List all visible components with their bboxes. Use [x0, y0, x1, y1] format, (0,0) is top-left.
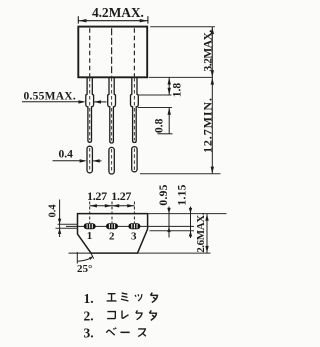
- svg-text:2.: 2.: [84, 309, 94, 324]
- 0.4 right tail: [93, 160, 102, 162]
- 0.4 left arrow: [80, 159, 87, 162]
- 0.8 up arrow below shoulder-bottom line: [168, 108, 171, 115]
- svg-text:3.: 3.: [84, 326, 94, 341]
- 1.8 top arrow: [168, 78, 171, 85]
- svg-text:3: 3: [131, 230, 137, 242]
- legend line 1 katakana エミッタ (drawn as paths): [107, 293, 158, 303]
- 1.15 down arrow at top edge: [189, 208, 192, 214]
- lead 3 (right) upper portion with shoulder bulge: [131, 77, 139, 142]
- 2.6MAX bottom arrow: [205, 246, 208, 253]
- 1.27 arrows: [90, 204, 97, 207]
- svg-text:12.7MIN.: 12.7MIN.: [201, 97, 215, 153]
- 25 degree chamfer extension: [91, 253, 94, 259]
- lead 2 (middle) upper portion with shoulder bulge: [108, 77, 116, 143]
- hidden lead line right (dashed): [133, 28, 135, 76]
- 0.4 leader line: [53, 160, 85, 162]
- lead 3 centerline dashes: [133, 78, 135, 140]
- svg-text:0.95: 0.95: [158, 184, 170, 205]
- 12.7MIN top arrow: [211, 78, 214, 85]
- svg-text:4.2MAX.: 4.2MAX.: [92, 5, 144, 20]
- dimension 4.2MAX line: [78, 20, 148, 22]
- extension line at shoulder top (y=95): [138, 94, 172, 96]
- glyph ス: [138, 329, 146, 337]
- pin 1 extension dashed up: [89, 202, 91, 224]
- 1.15 up arrow at pin bottom line: [189, 231, 192, 237]
- svg-text:0.4: 0.4: [59, 148, 74, 160]
- lead 3 lower centerline: [133, 148, 135, 170]
- glyph ッ (small tsu): [135, 294, 142, 301]
- bottom edge extension left (25 deg reference): [69, 252, 92, 254]
- svg-text:25°: 25°: [77, 263, 92, 275]
- 0.95 down arrow at top edge: [167, 208, 170, 214]
- package body front view: [78, 27, 147, 78]
- glyph エ: [107, 294, 117, 301]
- hidden lead line middle (dashed): [111, 28, 113, 76]
- pin 1 pad: [84, 223, 96, 229]
- svg-text:0.55MAX.: 0.55MAX.: [24, 90, 76, 102]
- dimension 1.8 line: [168, 77, 170, 95]
- glyph タ: [149, 310, 156, 320]
- 0.55MAX left arrow: [78, 100, 85, 103]
- lead 1 centerline dashes: [89, 78, 91, 140]
- 3.2MAX bottom arrow: [211, 70, 214, 77]
- glyph ミ: [121, 293, 128, 301]
- svg-text:0.4: 0.4: [48, 204, 59, 218]
- glyph タ: [150, 293, 157, 303]
- 25 degree reference vertical line: [76, 252, 78, 264]
- glyph ベ: [106, 328, 116, 335]
- glyph ー: [120, 331, 129, 333]
- body bottom extension line to right: [149, 76, 213, 78]
- 1.27 dimension line: [90, 205, 135, 207]
- 1.15 dimension line: [190, 207, 192, 239]
- svg-text:3.2MAX.: 3.2MAX.: [202, 30, 214, 72]
- svg-text:1.: 1.: [84, 291, 94, 306]
- 0.8 end bar: [158, 133, 173, 135]
- dimension 2.6MAX line: [206, 214, 208, 254]
- 0.55MAX right tail: [94, 101, 107, 103]
- lead 2 lower segment: [109, 147, 114, 174]
- hidden lead line left (dashed): [89, 28, 91, 76]
- dimension 3.2MAX line: [211, 27, 213, 78]
- dimension 0.8 line with outside arrow: [168, 108, 170, 134]
- 4.2MAX left arrow: [79, 19, 87, 22]
- pin 2 pad: [106, 223, 118, 229]
- lead 1 lower segment: [87, 146, 92, 173]
- lead 3 lower segment: [132, 147, 137, 172]
- 0.4 dimension line vertical: [59, 200, 61, 238]
- glyph コ: [107, 312, 115, 319]
- glyph レ: [122, 311, 129, 319]
- glyph ク: [136, 310, 142, 319]
- pin bottom extension line right: [150, 230, 195, 232]
- 25 degree arc arrowhead: [89, 256, 93, 260]
- svg-text:1.8: 1.8: [171, 83, 183, 98]
- 4.2MAX right arrow: [140, 19, 148, 22]
- svg-text:1.27: 1.27: [111, 189, 131, 203]
- svg-text:0.8: 0.8: [154, 118, 166, 133]
- 4.2MAX left extension tick: [77, 16, 79, 23]
- lead 1 lower centerline: [89, 148, 91, 171]
- lead 1 (left) upper portion with shoulder bulge: [86, 77, 94, 142]
- bottom edge extension right: [138, 252, 211, 254]
- top edge extension to right: [148, 213, 227, 215]
- svg-text:2: 2: [109, 230, 115, 242]
- svg-text:2.6MAX.: 2.6MAX.: [195, 212, 207, 253]
- pin 3 pad: [128, 223, 140, 229]
- 0.95 dimension line: [168, 207, 170, 238]
- svg-text:1: 1: [87, 230, 93, 242]
- 0.4 up arrow: [58, 228, 61, 234]
- pin centerline horizontal: [66, 225, 194, 227]
- 0.95 up arrow at centerline: [167, 227, 170, 233]
- 0.4 down arrow: [58, 219, 61, 225]
- extension line at shoulder bottom (y=107.5): [138, 107, 172, 109]
- 0.4 right arrow: [93, 159, 100, 162]
- 1.8 bottom arrow: [168, 88, 171, 95]
- 12.7MIN bottom arrow: [211, 167, 214, 174]
- svg-text:1.27: 1.27: [87, 189, 107, 203]
- body top extension line to right: [150, 26, 215, 28]
- pin 3 extension dashed up: [133, 202, 135, 224]
- pin 2 extension dashed up: [111, 202, 113, 224]
- 0.4 extension lines: [58, 223, 79, 225]
- lead tip extension line: [140, 173, 221, 175]
- 3.2MAX top arrow: [211, 27, 214, 34]
- 0.55MAX right arrow: [94, 100, 101, 103]
- legend line 3 katakana ベース (drawn as paths): [106, 328, 145, 337]
- svg-text:1.15: 1.15: [176, 184, 188, 205]
- 0.55MAX leader line: [22, 101, 84, 103]
- lead 2 centerline dashes: [111, 78, 113, 141]
- dimension 12.7MIN line: [211, 77, 213, 173]
- lead 2 lower centerline: [111, 149, 113, 172]
- 4.2MAX right extension tick: [147, 16, 149, 23]
- 25 degree arc: [78, 258, 92, 262]
- legend line 2 katakana コレクタ (drawn as paths): [107, 310, 156, 320]
- 2.6MAX top arrow: [205, 214, 208, 221]
- bottom view outline: [78, 214, 148, 254]
